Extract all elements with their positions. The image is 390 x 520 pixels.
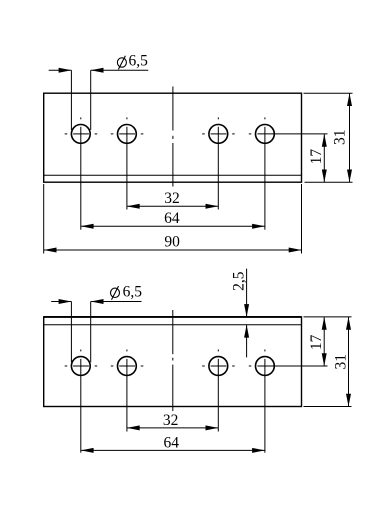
hole 4 (bottom view) bbox=[256, 357, 275, 376]
hole 3 (top view) bbox=[209, 124, 228, 143]
svg-text:64: 64 bbox=[164, 210, 180, 227]
dimension 31 (bottom view) bbox=[332, 317, 351, 407]
hole 2 (top view) bbox=[118, 124, 137, 143]
dimension 2,5 (bottom view) bbox=[231, 269, 250, 358]
hole 2 center mark (top view) bbox=[111, 117, 144, 209]
dimension 17 (top view) bbox=[308, 134, 327, 182]
plate top inner edge line (bottom view) bbox=[44, 324, 302, 326]
hole 2 (bottom view) bbox=[118, 357, 137, 376]
hole 3 (bottom view) bbox=[209, 357, 228, 376]
vertical centerline (top view) bbox=[172, 87, 174, 187]
svg-text:6,5: 6,5 bbox=[129, 53, 149, 70]
vertical centerline (bottom view) bbox=[172, 310, 174, 411]
right side extension lines (top view) bbox=[304, 93, 353, 182]
svg-text:32: 32 bbox=[164, 190, 180, 207]
svg-text:90: 90 bbox=[164, 234, 180, 251]
hole 3 center mark (bottom view) bbox=[202, 350, 235, 432]
svg-text:32: 32 bbox=[163, 412, 179, 429]
plate outline (top view) bbox=[44, 93, 302, 182]
hole 1 (bottom view) bbox=[71, 357, 90, 376]
dimension 17 (bottom view) bbox=[308, 317, 327, 366]
hole 1 center mark (bottom view) bbox=[65, 350, 98, 453]
right side extension lines (bottom view) bbox=[304, 317, 352, 407]
hole 4 (top view) bbox=[256, 124, 275, 143]
svg-text:2,5: 2,5 bbox=[231, 271, 248, 291]
dimension 64 (bottom view) bbox=[81, 435, 265, 453]
svg-text:64: 64 bbox=[164, 435, 180, 452]
svg-text:17: 17 bbox=[308, 149, 325, 165]
svg-text:31: 31 bbox=[332, 130, 349, 146]
diameter symbol (top view) bbox=[117, 58, 126, 67]
dimension 31 (top view) bbox=[332, 93, 352, 182]
svg-text:17: 17 bbox=[308, 334, 325, 350]
diameter 6,5 dimension (top view) bbox=[49, 53, 149, 130]
hole 3 center mark (top view) bbox=[202, 117, 235, 209]
hole 1 (top view) bbox=[71, 124, 90, 143]
hole 4 center mark (bottom view) bbox=[249, 350, 328, 453]
hole 1 center mark (top view) bbox=[65, 117, 98, 229]
hole 2 center mark (bottom view) bbox=[111, 350, 144, 432]
hole 4 center mark (top view) bbox=[249, 117, 328, 229]
plate outline (bottom view) bbox=[44, 317, 302, 407]
plate top edge thick line (bottom view) bbox=[44, 316, 302, 318]
diameter 6,5 dimension (bottom view) bbox=[51, 284, 142, 363]
svg-text:6,5: 6,5 bbox=[123, 284, 143, 301]
plate bottom inner edge line (top view) bbox=[44, 174, 302, 176]
diameter symbol (bottom view) bbox=[111, 288, 120, 297]
dimension 32 (top view) bbox=[127, 190, 218, 209]
dimension 64 (top view) bbox=[81, 210, 265, 229]
svg-text:31: 31 bbox=[332, 354, 349, 370]
dimension 90 (top view) bbox=[44, 184, 302, 254]
dimension 32 (bottom view) bbox=[127, 412, 218, 431]
